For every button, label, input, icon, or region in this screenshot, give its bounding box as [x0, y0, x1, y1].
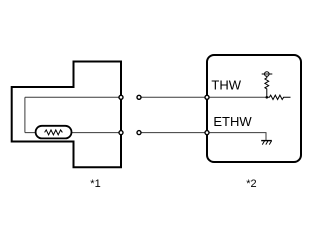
wire (sensor internal, THW side)	[25, 96, 121, 98]
junction (THW node)	[266, 96, 269, 99]
wire (harness THW)	[139, 96, 207, 98]
ground (chassis ground symbol)	[261, 141, 272, 145]
wire (harness ETHW)	[139, 132, 207, 134]
wire (ETHW inside ECU)	[208, 133, 266, 141]
wire (THW inside ECU)	[208, 96, 267, 98]
svg-text:*1: *1	[90, 178, 100, 190]
pin circle (ECU terminal ETHW)	[205, 131, 209, 135]
pin circle (sensor terminal ETHW)	[119, 131, 123, 135]
thermistor zigzag element	[45, 130, 63, 135]
thermistor body (sensing element)	[36, 126, 72, 139]
power terminal (circle with bar)	[262, 72, 273, 77]
resistor (pull-up, vertical)	[265, 76, 269, 97]
pin circle (sensor terminal THW)	[119, 95, 123, 99]
pin circle (ECU terminal THW)	[205, 95, 209, 99]
pin circle (harness connector ETHW)	[137, 131, 141, 135]
svg-text:*2: *2	[246, 178, 256, 190]
ECU box (*2)	[207, 55, 301, 162]
wire (sensor internal, left leg)	[24, 97, 26, 132]
resistor (series, horizontal)	[267, 95, 291, 99]
wire (sensor internal, ETHW side)	[25, 132, 121, 134]
svg-text:THW: THW	[211, 78, 241, 93]
sensor housing outline (*1 ECT sensor connector body)	[12, 62, 121, 168]
pin circle (harness connector THW)	[137, 95, 141, 99]
svg-text:ETHW: ETHW	[213, 114, 252, 129]
